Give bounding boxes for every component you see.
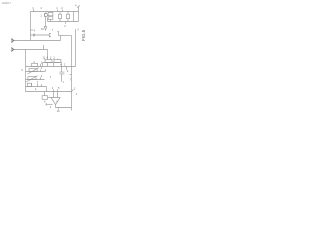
svg-text:FIG.5: FIG.5	[81, 29, 86, 41]
svg-text:1.: 1.	[40, 14, 42, 18]
svg-text:12/06/17: 12/06/17	[2, 2, 12, 5]
svg-text:2,: 2,	[35, 87, 37, 91]
